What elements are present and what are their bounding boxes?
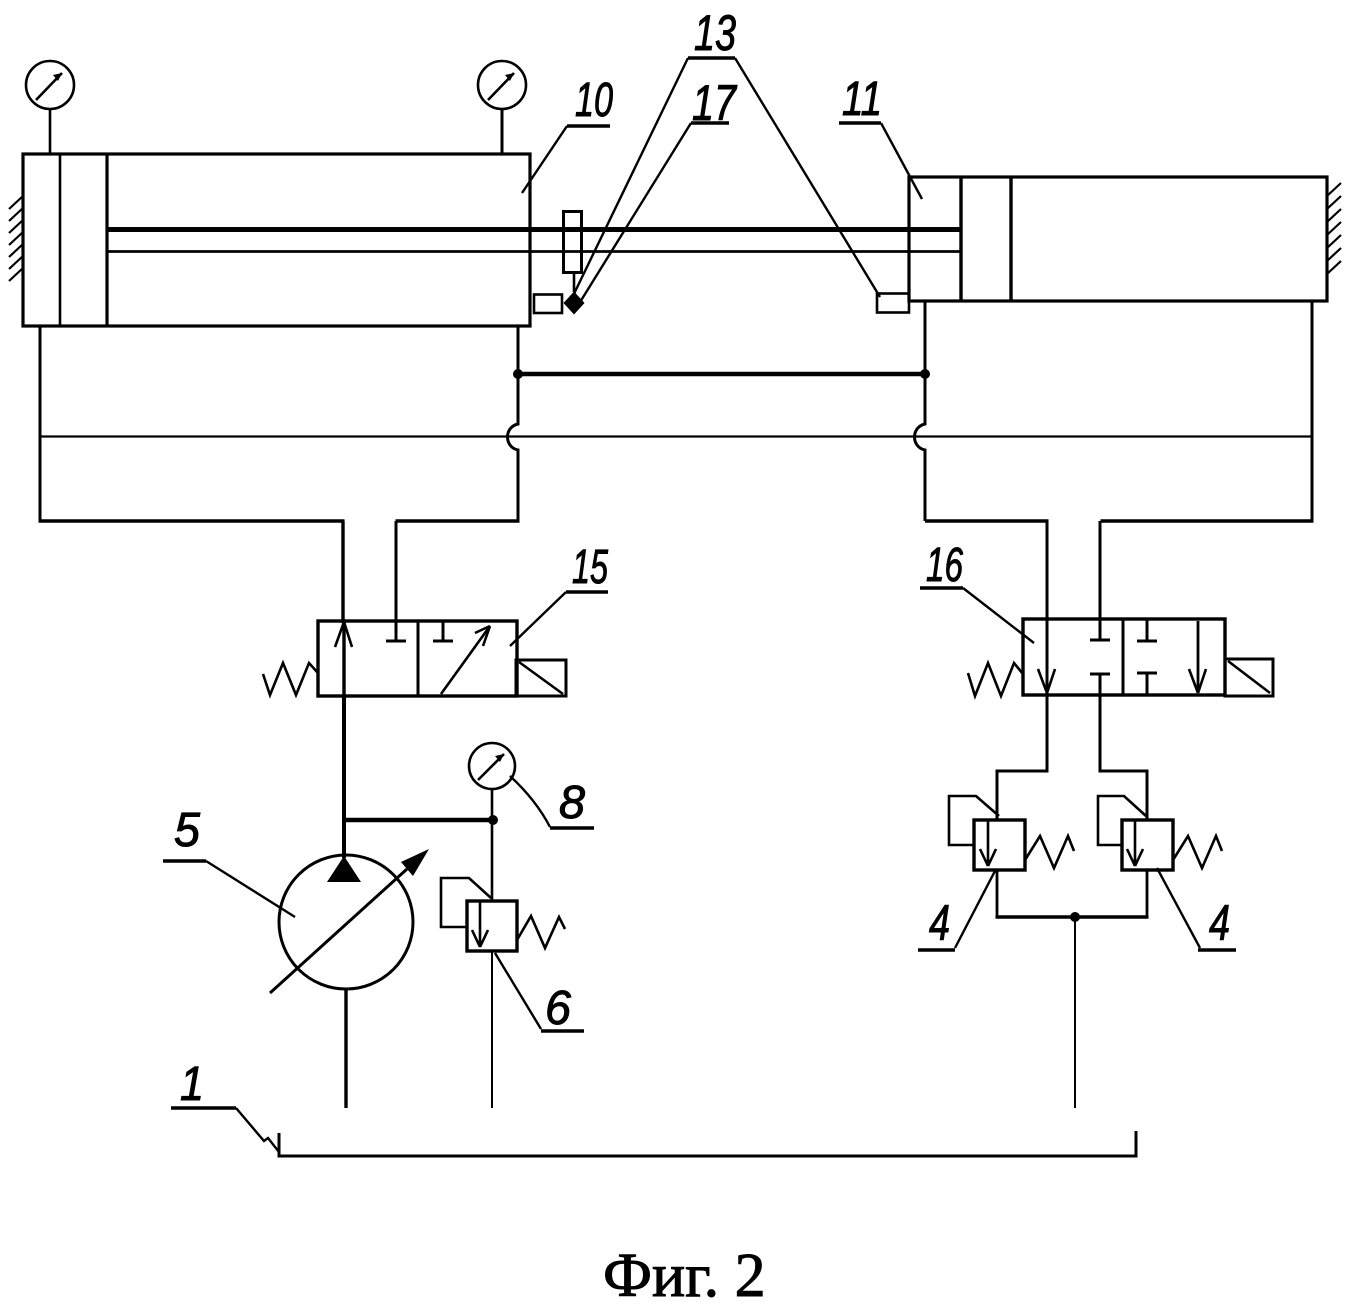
svg-text:10: 10: [575, 74, 613, 127]
label 4 left underline: [918, 948, 955, 951]
sensor box 13 on cylinder 10: [534, 295, 562, 314]
label 17 underline: [691, 121, 729, 124]
valve 15 blocked port T right cell: [433, 621, 453, 641]
left wall mount hatching: [9, 196, 23, 281]
element 17 block on rod: [564, 212, 582, 273]
wire: right manifold horizontal B: [1101, 519, 1314, 522]
valve 15 body: [318, 621, 517, 696]
valve 15 crossed-flow diagonal arrow: [441, 626, 490, 694]
junction dot gauge branch: [488, 815, 498, 825]
svg-text:4: 4: [929, 895, 950, 951]
wire: jog right to relief valve 4b: [1099, 771, 1148, 820]
cylinder 10 end cap line: [59, 154, 62, 326]
wire: relief valve 4a outlet: [996, 870, 999, 919]
valve 15 solenoid: [516, 660, 566, 696]
valve 16 through line right cell: [1197, 621, 1200, 693]
leader from 15 to valve: [510, 592, 566, 646]
right wall mount hatching: [1327, 183, 1341, 274]
leader from 10 to cylinder 10: [522, 126, 567, 193]
cylinder 10 piston: [105, 154, 108, 326]
pressure gauge on cylinder 10 left: [26, 61, 74, 154]
label 8 underline: [550, 826, 594, 829]
valve 15 position divider: [417, 621, 420, 696]
wire: jog left to relief valve 4a: [997, 771, 1049, 820]
wire: cylinder 11 right port down: [1311, 301, 1314, 521]
pressure gauge on cylinder 10 right: [478, 61, 526, 154]
valve 16 blocked T bottom right cell: [1137, 673, 1157, 695]
cylinder 11 piston: [959, 177, 962, 301]
wire: pump supply to valve 15: [342, 696, 346, 858]
leader from 13 to right sensor box: [735, 58, 880, 297]
valve 16 return spring: [968, 663, 1023, 696]
sensor diamond 13 (left): [564, 292, 585, 315]
valve 16 solenoid: [1225, 659, 1273, 696]
relief valve 4b flow line and arrow: [1127, 821, 1143, 866]
relief valve 4a flow line and arrow: [980, 821, 996, 866]
wire from element 17 to sensor diamond: [573, 273, 576, 293]
wire: long cap-end line: [40, 435, 1312, 437]
wire: right manifold horizontal A: [925, 519, 1049, 522]
tank line: [279, 1131, 1136, 1156]
pump 5 arrowhead: [401, 849, 429, 876]
piston rod (bottom line): [107, 250, 961, 253]
valve 16 blocked T bottom left cell: [1090, 674, 1110, 695]
svg-text:11: 11: [842, 73, 882, 126]
valve 16 blocked T top left cell: [1090, 619, 1110, 640]
wire: valve 16 right outlet down: [1099, 695, 1102, 771]
leader from 11 to cylinder 11: [881, 123, 922, 199]
wire: relief valve 4b outlet: [1146, 870, 1149, 919]
relief valve 4a spring: [1025, 836, 1074, 868]
wire: valve 16 right riser: [1099, 521, 1102, 619]
cylinder 11 body: [909, 177, 1327, 301]
svg-text:1: 1: [180, 1058, 204, 1111]
relief valve 4b spring: [1173, 836, 1222, 868]
wire: drain to tank right: [1074, 917, 1076, 1108]
cylinder 11 piston second line: [1009, 177, 1012, 301]
sensor box 13 on cylinder 11: [877, 294, 909, 313]
valve 16 position divider: [1122, 619, 1125, 695]
relief valve 6 spring: [517, 916, 565, 948]
label 6 underline: [541, 1029, 584, 1032]
valve 16 down arrowhead right cell: [1189, 669, 1206, 693]
svg-text:Фиг. 2: Фиг. 2: [603, 1242, 766, 1304]
label 5 underline: [163, 859, 206, 862]
wire: branch down to relief valve 6: [491, 820, 494, 901]
leader from 4 left to valve: [955, 869, 996, 948]
leader from 8 to gauge: [510, 776, 550, 827]
label 11 underline: [839, 121, 881, 124]
wire: rod-end cross line: [518, 372, 925, 376]
valve 15 blocked port T left cell: [386, 621, 406, 641]
cylinder 10 body: [23, 154, 530, 326]
relief valve 6 flow line and arrow: [472, 902, 488, 947]
relief valve 4b body: [1122, 820, 1173, 870]
wire: relief valve 6 drain: [491, 951, 493, 1108]
label 10 underline: [567, 124, 610, 127]
wire: cylinder 11 left port down with hop: [915, 301, 926, 521]
label 16 underline: [920, 586, 963, 589]
valve 16 blocked T top right cell: [1137, 619, 1157, 641]
pump 5 outlet triangle: [327, 856, 361, 882]
relief valve 6 pilot line: [441, 878, 491, 927]
wire: valve 15 port P riser: [341, 521, 344, 623]
wire: relief valves common drain header: [996, 915, 1149, 918]
relief valve 4b pilot line: [1098, 796, 1146, 845]
wire: left manifold horizontal B: [396, 519, 520, 522]
wire: gauge branch: [342, 818, 493, 822]
valve 16 body: [1023, 619, 1225, 695]
valve 15 up arrowhead: [335, 622, 352, 647]
leader from 6 to valve: [495, 953, 541, 1029]
pump 5 variable displacement arrow: [270, 869, 407, 993]
label 4 right underline: [1198, 948, 1236, 951]
valve 16 down arrowhead left cell: [1038, 669, 1055, 693]
leader from 17 to element 17: [577, 123, 691, 307]
svg-text:8: 8: [559, 776, 585, 828]
relief valve 4a pilot line: [949, 796, 999, 845]
piston rod (top line): [107, 227, 961, 232]
svg-text:4: 4: [1209, 895, 1230, 951]
leader from 4 right to valve: [1157, 868, 1200, 948]
wire: valve 16 left riser: [1046, 521, 1049, 619]
label 1 underline: [171, 1106, 236, 1109]
wire: cylinder 10 right port down with hop: [508, 326, 519, 521]
valve 15 solenoid diagonal: [519, 662, 563, 694]
svg-text:5: 5: [174, 804, 200, 857]
svg-text:13: 13: [694, 5, 736, 61]
wire: pump suction: [344, 989, 347, 1108]
valve 16 through-flow line: [1046, 619, 1049, 695]
valve 16 solenoid diagonal: [1228, 661, 1270, 693]
label 13 underline: [688, 56, 735, 59]
svg-text:15: 15: [572, 541, 608, 594]
valve 15 through-flow line: [342, 621, 345, 696]
wire: left manifold horizontal A: [39, 519, 345, 522]
svg-text:6: 6: [545, 982, 571, 1035]
leader from 1 to tank line: [236, 1108, 279, 1152]
label 15 underline: [566, 590, 608, 593]
valve 15 return spring: [263, 663, 318, 695]
pump 5 circle: [279, 855, 413, 989]
wire: cylinder 10 left port down: [39, 326, 42, 521]
wire: valve 16 left outlet down: [1046, 695, 1049, 771]
leader from 16 to valve: [963, 588, 1034, 643]
pressure gauge 8: [469, 743, 515, 820]
leader from 13 to left diamond: [571, 58, 688, 300]
svg-text:16: 16: [926, 539, 963, 592]
junction dot right: [920, 369, 930, 379]
junction dot drain: [1070, 912, 1080, 922]
wire: valve 15 port B riser: [395, 521, 398, 621]
relief valve 6 body: [467, 901, 517, 951]
junction dot left: [513, 369, 523, 379]
relief valve 4a body: [974, 820, 1025, 870]
leader from 5 to pump: [206, 861, 295, 917]
